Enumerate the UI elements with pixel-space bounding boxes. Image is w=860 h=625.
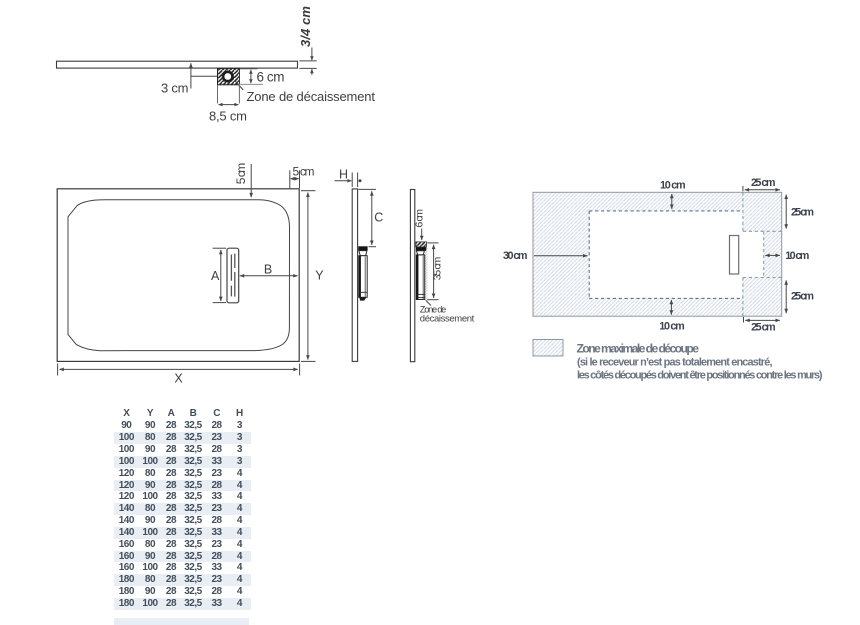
svg-text:C: C (374, 211, 383, 225)
svg-text:H: H (339, 167, 348, 181)
dim 5 cm rotated (top) (250, 164, 252, 197)
side bar 2 (410, 190, 414, 362)
SECTION: side view 1 (335, 167, 384, 361)
svg-text:5 cm: 5 cm (234, 163, 248, 185)
dim 10 cm right (765, 254, 780, 256)
dim 3 cm (191, 63, 217, 88)
drain box hatched (218, 68, 240, 84)
hatched cut zone rect (533, 192, 782, 316)
white notch area (743, 231, 764, 277)
svg-text:les côtés découpés doivent êtr: les côtés découpés doivent être position… (577, 370, 823, 382)
svg-text:25 cm: 25 cm (791, 291, 814, 303)
hatched box (zone) (416, 242, 427, 247)
svg-text:X: X (174, 371, 183, 385)
dim H (335, 173, 358, 188)
svg-text:10 cm: 10 cm (660, 179, 686, 191)
dim 6 cm rotated (421, 229, 423, 241)
outer rectangle (57, 189, 299, 362)
hatched strip right of drain (425, 247, 428, 301)
svg-text:30 cm: 30 cm (503, 250, 528, 262)
dim C (359, 189, 377, 246)
drain body (side1) (359, 256, 367, 298)
svg-text:25 cm: 25 cm (751, 177, 776, 189)
svg-text:10 cm: 10 cm (659, 320, 685, 332)
dim Y (301, 191, 316, 362)
svg-text:A: A (211, 269, 220, 283)
dim 6 cm (240, 68, 258, 70)
svg-text:Zone maximale de découpe: Zone maximale de découpe (577, 342, 700, 356)
extra empty shaded band (114, 618, 249, 625)
svg-text:Zone de décaissement: Zone de décaissement (247, 89, 376, 104)
inner tray outline (68, 200, 290, 351)
drain flange (side2) (416, 247, 426, 251)
SECTION: side view 2 (410, 190, 474, 362)
dim 30 cm left (534, 255, 588, 257)
tray profile bar (57, 61, 298, 68)
dashed cut limit lines (589, 211, 743, 299)
dim 25 cm bottom (743, 317, 745, 323)
SECTION: legend (533, 340, 823, 382)
svg-text:(si le receveur n’est pas tota: (si le receveur n’est pas totalement enc… (577, 356, 773, 368)
svg-text:35 cm: 35 cm (432, 257, 444, 281)
data table (114, 407, 251, 609)
dim 25 cm right lower (785, 280, 787, 313)
svg-text:Y: Y (315, 269, 324, 283)
white inner area (589, 211, 743, 299)
dim B (240, 275, 298, 277)
drain funnel (side1) (359, 251, 367, 256)
SECTION: main top view (57, 163, 324, 386)
svg-text:3 cm: 3 cm (161, 81, 189, 96)
svg-text:10 cm: 10 cm (785, 250, 809, 262)
dim 35 cm rotated (427, 243, 438, 300)
drain circle (223, 72, 232, 81)
drain flange (side1) (358, 246, 367, 250)
dim 25 cm right upper (785, 195, 787, 229)
svg-text:6 cm: 6 cm (413, 209, 425, 228)
drain body (side2) (416, 255, 424, 300)
svg-text:5 cm: 5 cm (293, 164, 315, 178)
dim 10 cm top (671, 194, 673, 209)
legend swatch (533, 340, 563, 357)
svg-text:8,5 cm: 8,5 cm (209, 108, 247, 123)
leader (side2) (426, 301, 431, 306)
drain rect (cut zone) (730, 236, 739, 275)
side bar 1 (352, 189, 357, 362)
dim 5 cm (top right) (290, 170, 300, 188)
SECTION: top-left profile view (57, 6, 376, 124)
dim X (58, 364, 300, 376)
svg-text:6 cm: 6 cm (257, 69, 285, 84)
SECTION: cut zone diagram (503, 177, 814, 333)
dim 3/4 cm rotated (299, 48, 316, 75)
drain funnel (side2) (416, 251, 424, 255)
dim 25 cm top (742, 186, 744, 191)
svg-text:25 cm: 25 cm (791, 206, 814, 218)
svg-text:3/4 cm: 3/4 cm (298, 6, 313, 47)
dim 8,5 cm (218, 86, 240, 104)
dim 10 cm bottom (670, 300, 672, 315)
drain grate (227, 248, 239, 303)
svg-text:B: B (264, 263, 272, 277)
svg-text:décaissement: décaissement (420, 314, 475, 325)
leader zone de decaissement (235, 81, 243, 90)
dim A (213, 248, 227, 302)
svg-text:25 cm: 25 cm (751, 322, 776, 334)
